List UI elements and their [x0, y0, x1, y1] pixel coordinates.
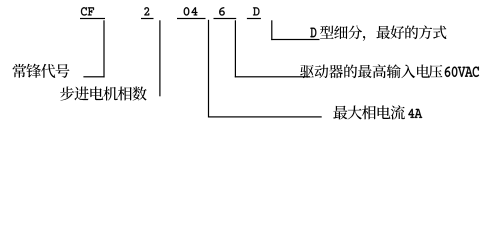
wire to 驱动器的最高输入电压 — [235, 76, 310, 77]
text 型细分，最好的方式 — [320, 25, 446, 40]
text 驱动器的最高输入电压 — [300, 64, 442, 78]
wire to D型细分 — [271, 39, 319, 40]
underline under label 6 — [214, 18, 237, 19]
label CF — [81, 7, 94, 15]
underline under label 04 — [177, 18, 206, 19]
text 60VAC — [445, 67, 479, 77]
underline under label 2 — [141, 18, 154, 19]
text 常锋代号 — [13, 64, 70, 78]
wire from 6 down — [235, 20, 236, 77]
wire to 最大相电流 — [208, 116, 322, 117]
wire to 常锋代号 — [83, 76, 104, 77]
wire from 2 down to 步进电机相数 — [159, 20, 160, 96]
label 2 — [144, 7, 149, 15]
text 4A — [408, 109, 422, 118]
underline under label CF — [80, 18, 105, 19]
underline under label D — [247, 18, 261, 19]
text 最大相电流 — [333, 105, 405, 119]
text D of D型细分 — [310, 28, 316, 38]
wire from CF down — [103, 20, 104, 77]
text 步进电机相数 — [60, 86, 147, 100]
wire from 04 down — [208, 20, 209, 118]
label 6 — [219, 7, 224, 15]
wire from D down — [271, 20, 272, 40]
label 04 — [184, 7, 198, 15]
label D — [253, 7, 259, 15]
